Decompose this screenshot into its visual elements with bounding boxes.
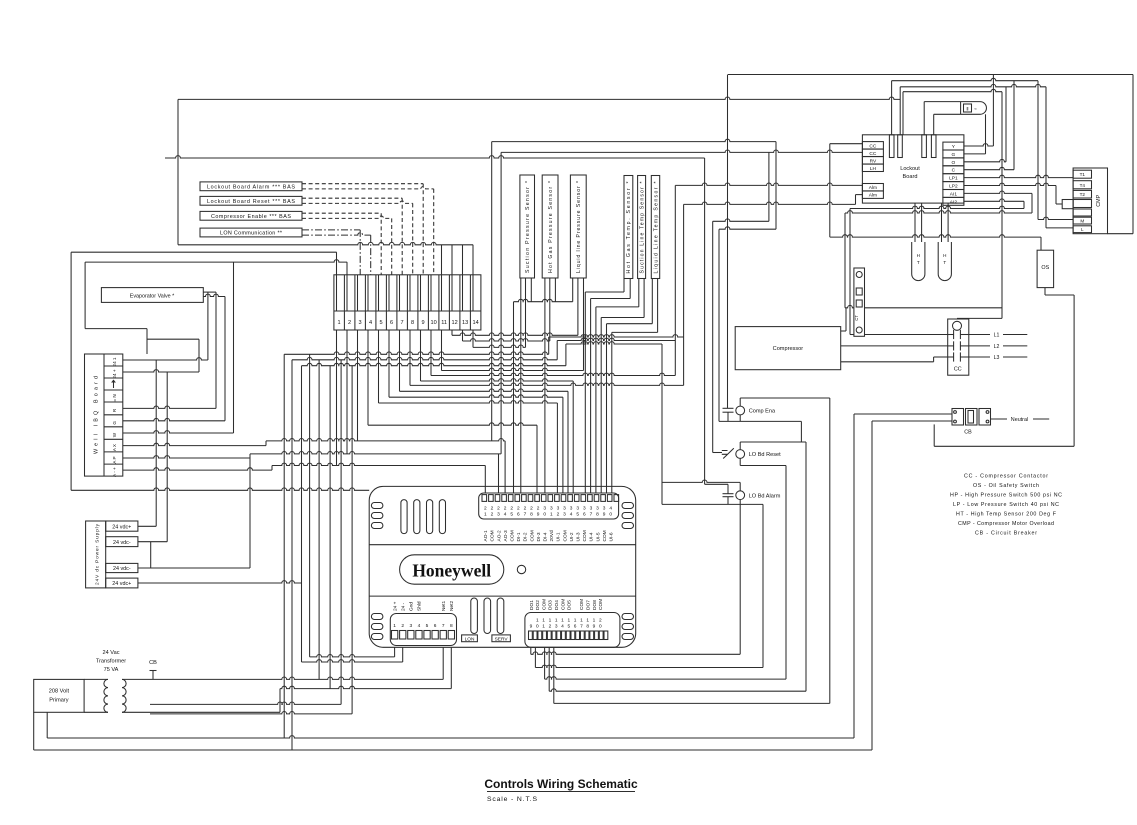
- svg-text:M: M: [1080, 219, 1084, 224]
- svg-text:O: O: [952, 160, 956, 166]
- svg-text:4: 4: [561, 624, 564, 630]
- svg-text:OS - Oil Safety Switch: OS - Oil Safety Switch: [973, 483, 1039, 489]
- svg-text:T1: T1: [1080, 172, 1086, 177]
- svg-text:CT: CT: [854, 315, 859, 321]
- svg-text:24 1: 24 1: [112, 357, 117, 366]
- svg-text:Board: Board: [903, 174, 918, 180]
- svg-text:OS: OS: [1041, 265, 1049, 271]
- svg-text:0: 0: [599, 624, 602, 630]
- svg-text:Controls Wiring Schematic: Controls Wiring Schematic: [484, 777, 638, 791]
- svg-text:8: 8: [450, 623, 453, 629]
- svg-text:7: 7: [590, 512, 593, 518]
- svg-text:24 vdc-: 24 vdc-: [113, 566, 131, 572]
- svg-text:1: 1: [338, 320, 341, 326]
- svg-text:C: C: [952, 168, 956, 174]
- svg-text:2: 2: [530, 506, 533, 512]
- svg-text:LON: LON: [465, 636, 475, 642]
- svg-text:L: L: [1081, 227, 1084, 232]
- svg-text:6: 6: [390, 320, 393, 326]
- svg-text:3: 3: [590, 506, 593, 512]
- svg-text:LO Bd Alarm: LO Bd Alarm: [749, 493, 781, 499]
- svg-text:A - +: A - +: [112, 467, 117, 477]
- svg-text:1: 1: [484, 512, 487, 518]
- svg-text:Honeywell: Honeywell: [412, 561, 491, 581]
- svg-text:Lockout Board Alarm *** BAS: Lockout Board Alarm *** BAS: [207, 184, 295, 190]
- svg-text:CC: CC: [954, 367, 962, 373]
- svg-text:COM: COM: [490, 530, 496, 541]
- svg-text:3: 3: [359, 320, 362, 326]
- svg-text:8: 8: [530, 512, 533, 518]
- svg-text:AO-3: AO-3: [503, 530, 509, 542]
- svg-text:3: 3: [576, 506, 579, 512]
- svg-text:2: 2: [524, 506, 527, 512]
- svg-text:6: 6: [517, 512, 520, 518]
- svg-text:UI-6: UI-6: [609, 532, 615, 541]
- svg-text:CB: CB: [149, 660, 157, 666]
- svg-text:24 vdc+: 24 vdc+: [112, 524, 131, 530]
- svg-text:Alm: Alm: [869, 185, 877, 191]
- svg-text:UI-5: UI-5: [595, 532, 601, 541]
- svg-text:1: 1: [574, 618, 577, 624]
- svg-text:Lockout Board Reset *** BAS: Lockout Board Reset *** BAS: [207, 199, 295, 205]
- svg-text:5: 5: [576, 512, 579, 518]
- svg-text:1: 1: [542, 624, 545, 630]
- svg-text:2: 2: [504, 506, 507, 512]
- svg-text:9: 9: [593, 624, 596, 630]
- svg-text:DI-3: DI-3: [536, 532, 542, 541]
- svg-text:L3: L3: [994, 355, 1000, 361]
- svg-text:DI-1: DI-1: [516, 532, 522, 541]
- svg-text:AO-1: AO-1: [483, 530, 489, 542]
- svg-text:Scale - N.T.S: Scale - N.T.S: [487, 796, 537, 803]
- svg-text:LP - Low Pressure Switch 40 ps: LP - Low Pressure Switch 40 psi NC: [953, 502, 1059, 508]
- svg-text:H: H: [943, 253, 946, 258]
- svg-text:3: 3: [596, 506, 599, 512]
- svg-text:1: 1: [580, 618, 583, 624]
- svg-text:Compressor: Compressor: [773, 346, 804, 352]
- svg-text:75 VA: 75 VA: [104, 667, 119, 673]
- svg-text:W: W: [112, 432, 117, 437]
- svg-text:COM: COM: [560, 599, 566, 610]
- svg-text:COM: COM: [562, 530, 568, 541]
- svg-text:Net2: Net2: [449, 601, 455, 611]
- svg-text:UI-2: UI-2: [569, 532, 575, 541]
- svg-text:DO5: DO5: [567, 600, 573, 610]
- svg-text:1: 1: [549, 618, 552, 624]
- svg-text:T2: T2: [1080, 192, 1086, 197]
- svg-text:7: 7: [401, 320, 404, 326]
- svg-text:8: 8: [596, 512, 599, 518]
- svg-text:2: 2: [491, 506, 494, 512]
- svg-text:AI1: AI1: [950, 191, 958, 197]
- svg-text:3: 3: [563, 512, 566, 518]
- svg-text:Neutral: Neutral: [1011, 417, 1028, 423]
- svg-text:2: 2: [599, 618, 602, 624]
- svg-text:0: 0: [543, 512, 546, 518]
- svg-text:4: 4: [609, 506, 612, 512]
- svg-text:COM: COM: [529, 530, 535, 541]
- svg-text:RV: RV: [870, 158, 877, 164]
- svg-text:Evaporator Valve *: Evaporator Valve *: [130, 294, 175, 300]
- svg-text:Hot Gas Pressure Sensor *: Hot Gas Pressure Sensor *: [548, 181, 554, 273]
- svg-text:SERV: SERV: [495, 636, 509, 642]
- svg-text:24 -: 24 -: [401, 602, 407, 611]
- svg-text:CB: CB: [964, 430, 972, 436]
- svg-text:3: 3: [603, 506, 606, 512]
- svg-text:7: 7: [580, 624, 583, 630]
- svg-text:A P: A P: [112, 456, 117, 463]
- svg-text:UI-3: UI-3: [576, 532, 582, 541]
- svg-text:208 Volt: 208 Volt: [49, 689, 70, 695]
- svg-text:20Vd: 20Vd: [549, 530, 555, 542]
- svg-text:1: 1: [567, 618, 570, 624]
- svg-text:11: 11: [441, 320, 447, 326]
- svg-text:12: 12: [451, 320, 457, 326]
- svg-text:1: 1: [550, 512, 553, 518]
- svg-text:2: 2: [348, 320, 351, 326]
- svg-text:COM: COM: [541, 599, 547, 610]
- svg-text:5: 5: [426, 623, 429, 629]
- svg-text:3: 3: [497, 512, 500, 518]
- svg-text:24 Vac: 24 Vac: [103, 650, 120, 656]
- svg-text:2: 2: [549, 624, 552, 630]
- svg-text:DO8: DO8: [592, 600, 598, 610]
- svg-text:T4: T4: [1080, 183, 1086, 188]
- svg-text:DO1: DO1: [529, 600, 535, 610]
- svg-text:1: 1: [593, 618, 596, 624]
- svg-text:Shld: Shld: [417, 601, 423, 611]
- svg-text:L2: L2: [994, 344, 1000, 350]
- svg-text:1: 1: [536, 618, 539, 624]
- svg-text:24 vdc-: 24 vdc-: [113, 540, 131, 546]
- svg-text:3: 3: [557, 506, 560, 512]
- svg-text:3: 3: [555, 624, 558, 630]
- svg-text:2: 2: [491, 512, 494, 518]
- svg-text:24 vdc+: 24 vdc+: [112, 581, 131, 587]
- svg-text:COM: COM: [579, 599, 585, 610]
- svg-text:LO Bd Reset: LO Bd Reset: [749, 452, 781, 458]
- svg-text:5: 5: [380, 320, 383, 326]
- svg-text:13: 13: [462, 320, 468, 326]
- svg-text:DO4: DO4: [554, 600, 560, 610]
- svg-text:24 +: 24 +: [392, 601, 398, 611]
- svg-text:DI-4: DI-4: [543, 532, 549, 541]
- svg-text:COM: COM: [510, 530, 516, 541]
- svg-text:9: 9: [537, 512, 540, 518]
- svg-text:2: 2: [557, 512, 560, 518]
- svg-text:A X: A X: [112, 444, 117, 451]
- svg-text:2: 2: [537, 506, 540, 512]
- svg-text:Net1: Net1: [441, 601, 447, 611]
- svg-text:1: 1: [561, 618, 564, 624]
- svg-text:6: 6: [434, 623, 437, 629]
- svg-text:Gnd: Gnd: [409, 602, 415, 611]
- svg-text:CC: CC: [869, 151, 876, 157]
- svg-text:UI-4: UI-4: [589, 532, 595, 541]
- svg-text:1: 1: [555, 618, 558, 624]
- svg-text:3: 3: [583, 506, 586, 512]
- svg-text:1: 1: [542, 618, 545, 624]
- svg-text:Primary: Primary: [49, 698, 68, 704]
- svg-text:H: H: [917, 253, 920, 258]
- svg-text:HT - High Temp Sensor 200 Deg: HT - High Temp Sensor 200 Deg F: [956, 512, 1057, 518]
- svg-text:T: T: [943, 260, 946, 265]
- svg-text:Transformer: Transformer: [96, 659, 126, 665]
- svg-text:AI2: AI2: [950, 199, 958, 205]
- svg-text:9: 9: [422, 320, 425, 326]
- svg-text:8: 8: [411, 320, 414, 326]
- svg-text:4: 4: [504, 512, 507, 518]
- svg-text:24V dc Power Supply: 24V dc Power Supply: [95, 523, 101, 585]
- svg-text:5: 5: [567, 624, 570, 630]
- svg-text:9: 9: [530, 624, 533, 630]
- svg-text:7: 7: [442, 623, 445, 629]
- svg-text:Alm: Alm: [869, 193, 877, 199]
- svg-text:L1: L1: [994, 333, 1000, 339]
- svg-text:DI-2: DI-2: [523, 532, 529, 541]
- svg-text:CC: CC: [869, 143, 876, 149]
- svg-text:LON Communication **: LON Communication **: [220, 231, 283, 237]
- svg-text:CMP: CMP: [1096, 194, 1102, 206]
- svg-text:CMP - Compressor Motor Overloa: CMP - Compressor Motor Overload: [958, 521, 1054, 527]
- svg-text:CC - Compressor Contactor: CC - Compressor Contactor: [964, 474, 1048, 480]
- svg-text:COM: COM: [598, 599, 604, 610]
- svg-text:4: 4: [570, 512, 573, 518]
- svg-text:7: 7: [524, 512, 527, 518]
- svg-text:LH: LH: [870, 166, 877, 172]
- svg-text:6: 6: [574, 624, 577, 630]
- svg-text:2: 2: [401, 623, 404, 629]
- svg-text:0: 0: [536, 624, 539, 630]
- svg-text:G: G: [952, 152, 956, 158]
- svg-text:COM: COM: [602, 530, 608, 541]
- svg-text:2: 2: [484, 506, 487, 512]
- svg-text:3: 3: [409, 623, 412, 629]
- svg-text:T: T: [917, 260, 920, 265]
- svg-text:3: 3: [543, 506, 546, 512]
- svg-text:3: 3: [563, 506, 566, 512]
- svg-text:CB - Circuit Breaker: CB - Circuit Breaker: [975, 531, 1037, 537]
- svg-text:1: 1: [393, 623, 396, 629]
- svg-text:4: 4: [418, 623, 421, 629]
- svg-text:14: 14: [472, 320, 478, 326]
- svg-text:6: 6: [583, 512, 586, 518]
- svg-text:0: 0: [609, 512, 612, 518]
- svg-text:9: 9: [603, 512, 606, 518]
- svg-text:LP1: LP1: [949, 176, 958, 182]
- svg-text:1: 1: [586, 618, 589, 624]
- svg-text:Comp Ena: Comp Ena: [749, 409, 776, 415]
- svg-text:UI-1: UI-1: [556, 532, 562, 541]
- svg-text:Compressor Enable *** BAS: Compressor Enable *** BAS: [211, 214, 291, 220]
- svg-text:2: 2: [497, 506, 500, 512]
- svg-text:COM: COM: [582, 530, 588, 541]
- svg-text:2: 2: [510, 506, 513, 512]
- svg-text:24 +: 24 +: [112, 369, 117, 378]
- svg-text:8: 8: [586, 624, 589, 630]
- svg-text:4: 4: [369, 320, 372, 326]
- svg-text:AO-2: AO-2: [496, 530, 502, 542]
- svg-text:5: 5: [510, 512, 513, 518]
- svg-text:Hot Gas Temp. Sensor *: Hot Gas Temp. Sensor *: [626, 182, 632, 274]
- svg-text:HP - High Pressure Switch 500: HP - High Pressure Switch 500 psi NC: [950, 493, 1062, 499]
- svg-text:LP2: LP2: [949, 184, 958, 190]
- svg-text:3: 3: [550, 506, 553, 512]
- svg-text:Lockout: Lockout: [900, 166, 920, 172]
- svg-text:3: 3: [570, 506, 573, 512]
- svg-text:Suction Pressure Sensor *: Suction Pressure Sensor *: [525, 181, 531, 273]
- svg-text:= N: = N: [112, 394, 117, 401]
- svg-text:DO2: DO2: [535, 600, 541, 610]
- svg-text:G: G: [112, 421, 117, 425]
- svg-text:DO7: DO7: [586, 600, 592, 610]
- svg-text:Ⅱ: Ⅱ: [966, 107, 968, 112]
- svg-text:10: 10: [430, 320, 436, 326]
- svg-text:DO3: DO3: [548, 600, 554, 610]
- svg-text:2: 2: [517, 506, 520, 512]
- svg-text:Liquid line Pressure Sensor *: Liquid line Pressure Sensor *: [576, 181, 582, 273]
